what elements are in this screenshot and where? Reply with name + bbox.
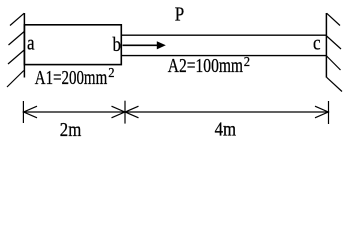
svg-text:a: a — [27, 32, 35, 55]
dimension tick right — [328, 101, 330, 124]
label A1=200mm^2 — [35, 64, 115, 88]
left wall hatch 1 — [10, 13, 24, 25]
dimension arrowhead mid-right (points left) — [125, 106, 138, 118]
svg-text:A1=200mm: A1=200mm — [35, 66, 107, 88]
bar BC bottom edge — [121, 55, 326, 57]
svg-text:A2=100mm: A2=100mm — [168, 54, 243, 76]
label A2=100mm^2 — [168, 53, 250, 76]
force arrow P head — [157, 41, 166, 49]
svg-text:4m: 4m — [215, 118, 237, 140]
bar AB (A1 section rectangle) — [24, 25, 121, 65]
left wall hatch 2 — [9, 32, 25, 46]
dimension line 4m span — [125, 111, 329, 113]
svg-text:c: c — [313, 32, 321, 55]
dimension arrowhead mid-left (points right) — [112, 106, 125, 118]
force arrow P shaft — [123, 44, 158, 46]
dimension arrowhead right (points right) — [315, 106, 328, 118]
dimension arrowhead left (points left) — [24, 106, 37, 118]
right wall hatch 1 — [327, 13, 340, 25]
svg-text:2m: 2m — [60, 119, 82, 141]
right wall — [325, 13, 327, 78]
right wall hatch 4 — [327, 77, 342, 91]
svg-text:2: 2 — [244, 53, 250, 69]
dimension tick middle — [124, 101, 126, 124]
svg-text:b: b — [113, 34, 122, 57]
left wall hatch 4 — [7, 71, 24, 88]
left wall hatch 3 — [8, 50, 24, 64]
dimension line 2m span — [23, 111, 125, 113]
right wall hatch 3 — [327, 56, 341, 70]
right wall hatch 2 — [327, 36, 341, 49]
bar BC top edge — [121, 34, 326, 36]
svg-text:2: 2 — [108, 64, 114, 80]
svg-text:P: P — [175, 3, 184, 26]
left wall — [23, 13, 25, 78]
dimension tick left — [22, 101, 24, 123]
